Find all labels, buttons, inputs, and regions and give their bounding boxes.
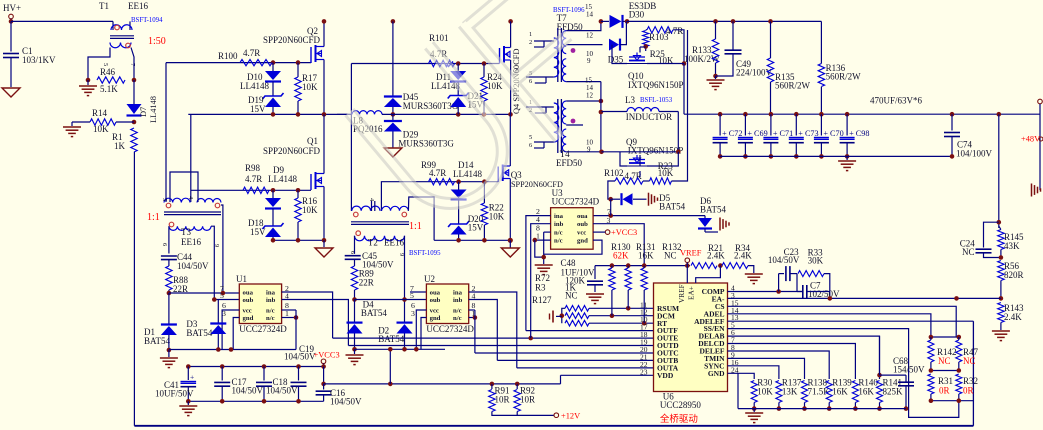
- wire gate bus Q4: [351, 63, 499, 65]
- chassis: [1031, 184, 1033, 197]
- svg-text:1: 1: [529, 31, 532, 38]
- svg-text:BSFT-1094: BSFT-1094: [131, 17, 163, 24]
- svg-text:104/50V: 104/50V: [177, 261, 209, 271]
- svg-text:LL4148: LL4148: [240, 81, 269, 91]
- svg-text:825K: 825K: [883, 387, 904, 397]
- ground: [87, 80, 89, 85]
- zener D19: [272, 82, 274, 97]
- wire U1 pin7: [167, 291, 172, 296]
- svg-text:+VCC3: +VCC3: [314, 351, 340, 360]
- svg-text:5: 5: [220, 291, 224, 300]
- svg-text:1:1: 1:1: [147, 212, 160, 223]
- svg-text:n/c: n/c: [266, 308, 275, 315]
- svg-text:R31: R31: [938, 376, 953, 386]
- svg-text:oub: oub: [430, 297, 441, 304]
- svg-text:oua: oua: [430, 290, 441, 297]
- ground: [187, 401, 189, 405]
- wire OUTF: [526, 330, 654, 332]
- svg-text:n/c: n/c: [554, 238, 563, 245]
- svg-text:10R: 10R: [495, 395, 510, 405]
- svg-text:INDUCTOR: INDUCTOR: [626, 112, 672, 122]
- wire: [566, 44, 602, 46]
- svg-text:0R: 0R: [939, 386, 950, 396]
- wire bottom return: [134, 425, 973, 427]
- svg-text:+12V: +12V: [561, 412, 580, 421]
- svg-text:BAT54: BAT54: [378, 334, 405, 344]
- ground: [168, 350, 170, 357]
- wire T4 pins left: [526, 106, 554, 108]
- diode D7: [133, 80, 135, 104]
- svg-text:EE16: EE16: [384, 238, 404, 248]
- svg-text:R3: R3: [535, 283, 546, 293]
- svg-text:5: 5: [161, 198, 168, 201]
- wire OUTB: [497, 359, 653, 361]
- capacitor C18: [263, 367, 265, 381]
- svg-text:16K: 16K: [858, 387, 874, 397]
- svg-text:inb: inb: [453, 297, 463, 304]
- svg-text:5: 5: [102, 63, 109, 66]
- wire COMP: [728, 291, 803, 293]
- ground: [72, 121, 90, 123]
- svg-text:R46: R46: [100, 67, 116, 77]
- wire: [683, 64, 685, 115]
- svg-text:IXTQ96N150P: IXTQ96N150P: [628, 80, 684, 90]
- svg-text:R127: R127: [532, 295, 552, 305]
- wire CS: [728, 306, 957, 337]
- zener D21: [457, 82, 459, 96]
- svg-text:10K: 10K: [658, 168, 674, 178]
- wire ADEL: [728, 314, 931, 337]
- svg-text:D30: D30: [629, 10, 645, 20]
- svg-text:ina: ina: [266, 290, 276, 297]
- wire: [88, 48, 110, 79]
- wire: [931, 370, 959, 372]
- svg-text:6: 6: [529, 142, 532, 149]
- wire: [620, 152, 627, 166]
- resistor R139: [728, 351, 830, 379]
- svg-text:oua: oua: [577, 213, 588, 220]
- svg-text:全桥驱动: 全桥驱动: [660, 413, 698, 425]
- wire gate Q3: [381, 182, 498, 211]
- svg-text:VREF: VREF: [677, 284, 686, 303]
- ic U6 UCC28950: [654, 283, 728, 392]
- svg-text:2: 2: [529, 39, 532, 46]
- svg-text:10K: 10K: [302, 82, 318, 92]
- svg-text:9: 9: [587, 146, 591, 154]
- wire: [612, 45, 627, 64]
- svg-text:SPP20N60CFD: SPP20N60CFD: [263, 146, 321, 156]
- wire source bus Q3: [434, 239, 510, 241]
- wire gnd bus: [738, 408, 906, 410]
- svg-text:102/50V: 102/50V: [808, 289, 840, 299]
- svg-text:224/100V: 224/100V: [736, 68, 773, 78]
- svg-text:L3: L3: [625, 95, 635, 105]
- svg-text:U1: U1: [236, 274, 247, 284]
- wire: [1000, 113, 1040, 115]
- wire: [566, 81, 601, 83]
- capacitor C16: [321, 364, 326, 369]
- capacitor C69: [743, 112, 748, 117]
- svg-text:inb: inb: [266, 297, 276, 304]
- svg-text:oub: oub: [577, 221, 588, 228]
- wire vcc3 bus: [188, 366, 323, 368]
- capacitor C71: [769, 112, 774, 117]
- wire: [170, 172, 198, 202]
- svg-text:+ C73: + C73: [798, 129, 818, 138]
- zener D18: [272, 209, 274, 227]
- ground: [556, 315, 562, 317]
- svg-text:EFD50: EFD50: [556, 158, 583, 168]
- svg-text:104/50V: 104/50V: [330, 397, 362, 407]
- svg-text:NC: NC: [962, 247, 975, 257]
- svg-text:NC: NC: [963, 356, 976, 366]
- svg-text:UCC27324D: UCC27324D: [552, 197, 600, 207]
- ground: [748, 266, 754, 273]
- wire: [647, 152, 678, 166]
- svg-text:EE16: EE16: [128, 1, 148, 11]
- svg-text:gnd: gnd: [430, 315, 441, 322]
- capacitor C98: [845, 112, 850, 117]
- svg-text:D7: D7: [139, 107, 148, 117]
- zener D20: [458, 200, 460, 225]
- wire T7 pins left: [534, 40, 554, 42]
- svg-text:30K: 30K: [808, 256, 824, 266]
- svg-text:103/1KV: 103/1KV: [22, 55, 56, 65]
- svg-text:U2: U2: [424, 274, 435, 284]
- svg-text:10K: 10K: [487, 81, 503, 91]
- wire EA-: [728, 297, 1001, 299]
- wire: [133, 152, 135, 426]
- svg-text:SPP20N60CFD: SPP20N60CFD: [263, 35, 321, 45]
- svg-text:154/50V: 154/50V: [893, 365, 925, 375]
- svg-text:GND: GND: [708, 369, 725, 378]
- wire output bus+: [684, 113, 999, 115]
- resistor R30: [728, 373, 755, 379]
- svg-text:+ C69: + C69: [747, 129, 767, 138]
- svg-text:BAT54: BAT54: [700, 205, 727, 215]
- wire: [639, 171, 641, 177]
- wire gate Q1: [191, 189, 311, 191]
- wire gate bus Q2: [166, 62, 311, 64]
- svg-text:1:1: 1:1: [409, 221, 422, 232]
- svg-text:3: 3: [222, 309, 226, 318]
- decor watermark: [349, 0, 630, 231]
- svg-text:EA+: EA+: [687, 286, 696, 300]
- svg-text:1:50: 1:50: [148, 36, 166, 47]
- svg-text:vcc: vcc: [577, 230, 586, 237]
- svg-text:ina: ina: [554, 213, 564, 220]
- wire phase bus mid: [382, 113, 511, 115]
- wire gnd row U1: [169, 349, 296, 351]
- svg-text:13K: 13K: [782, 387, 798, 397]
- wire: [593, 215, 705, 217]
- ground: [753, 409, 755, 412]
- svg-text:UCC28950: UCC28950: [660, 400, 702, 410]
- svg-text:10R: 10R: [520, 395, 535, 405]
- svg-text:oub: oub: [243, 297, 254, 304]
- svg-text:R72: R72: [535, 273, 550, 283]
- ground: [354, 349, 356, 354]
- svg-text:LL4148: LL4148: [268, 174, 297, 184]
- svg-text:470UF/63V*6: 470UF/63V*6: [870, 96, 923, 106]
- capacitor C74: [950, 112, 955, 117]
- resistor R137: [728, 366, 779, 379]
- wire: [165, 63, 167, 202]
- svg-text:6: 6: [529, 78, 532, 85]
- svg-text:560R/2W: 560R/2W: [826, 72, 862, 82]
- wire: [10, 19, 12, 22]
- wire: [931, 336, 959, 338]
- svg-text:4.7R: 4.7R: [429, 168, 446, 178]
- svg-text:HV+: HV+: [3, 3, 21, 13]
- svg-text:NC: NC: [938, 356, 951, 366]
- svg-text:n/c: n/c: [453, 308, 462, 315]
- svg-text:BAT54: BAT54: [659, 202, 686, 212]
- capacitor C70: [819, 112, 824, 117]
- svg-text:R32: R32: [963, 376, 978, 386]
- wire U3 gnd: [544, 240, 602, 254]
- svg-text:62K: 62K: [613, 251, 629, 261]
- transformer T2: [352, 206, 380, 211]
- svg-text:104/50V: 104/50V: [284, 352, 316, 362]
- svg-text:R98: R98: [245, 163, 261, 173]
- svg-text:gnd: gnd: [243, 315, 254, 322]
- svg-text:16K: 16K: [638, 251, 654, 261]
- capacitor C44: [161, 255, 177, 257]
- svg-text:R14: R14: [92, 108, 108, 118]
- svg-text:T2: T2: [368, 238, 378, 248]
- wire output bus-: [720, 155, 952, 157]
- svg-text:R102: R102: [604, 168, 624, 178]
- capacitor C73: [794, 112, 799, 117]
- svg-text:104/100V: 104/100V: [956, 149, 993, 159]
- ground: [392, 132, 394, 148]
- svg-text:+: +: [190, 373, 194, 382]
- wire OUTD: [348, 345, 653, 347]
- inductor L8: [337, 113, 352, 115]
- svg-text:10K: 10K: [757, 387, 773, 397]
- svg-text:vcc: vcc: [243, 308, 252, 315]
- capacitor C45: [345, 255, 361, 257]
- svg-text:R101: R101: [429, 33, 449, 43]
- svg-text:2.4K: 2.4K: [1004, 312, 1022, 322]
- svg-text:16K: 16K: [832, 387, 848, 397]
- wire SS/EN: [728, 329, 959, 418]
- svg-text:104/50V: 104/50V: [768, 255, 800, 265]
- svg-text:LL4148: LL4148: [149, 96, 158, 123]
- wire: [350, 64, 352, 212]
- wire U2 oua: [410, 291, 426, 293]
- svg-text:Q1: Q1: [307, 136, 318, 146]
- svg-text:15V: 15V: [250, 227, 266, 237]
- wire vref bus: [595, 265, 690, 267]
- wire: [408, 197, 434, 240]
- wire vcc3 gnd bus: [188, 400, 323, 402]
- svg-text:10K: 10K: [302, 205, 318, 215]
- svg-text:2.4K: 2.4K: [734, 251, 752, 261]
- svg-text:+VCC3: +VCC3: [611, 228, 637, 237]
- svg-text:IXTQ96N150P: IXTQ96N150P: [628, 146, 684, 156]
- svg-text:6: 6: [161, 243, 168, 246]
- ground: [323, 240, 325, 247]
- wire VDD: [561, 374, 654, 376]
- svg-text:4.7R: 4.7R: [245, 174, 262, 184]
- diode D10: [272, 63, 274, 71]
- svg-text:gnd: gnd: [577, 238, 588, 245]
- svg-text:3: 3: [411, 309, 415, 318]
- svg-text:n/c: n/c: [554, 230, 563, 237]
- svg-text:VREF: VREF: [680, 249, 702, 258]
- svg-text:NC: NC: [565, 291, 578, 301]
- wire: [211, 226, 214, 299]
- svg-text:vcc: vcc: [430, 308, 439, 315]
- wire: [931, 400, 974, 402]
- svg-text:BAT54: BAT54: [144, 336, 171, 346]
- svg-text:0R: 0R: [963, 386, 974, 396]
- wire: [389, 349, 391, 384]
- svg-text:14: 14: [586, 11, 594, 19]
- svg-text:+ C70: + C70: [823, 129, 843, 138]
- svg-text:ina: ina: [453, 290, 463, 297]
- ground: [1000, 323, 1002, 331]
- svg-text:LL4148: LL4148: [453, 169, 482, 179]
- wire: [404, 236, 406, 323]
- svg-text:43K: 43K: [1004, 241, 1020, 251]
- svg-text:5: 5: [529, 134, 532, 141]
- resistor R141: [728, 336, 880, 379]
- svg-text:n/c: n/c: [453, 315, 462, 322]
- wire vdd bus: [324, 383, 561, 385]
- svg-text:MURS360T3G: MURS360T3G: [403, 101, 459, 111]
- svg-text:BAT54: BAT54: [361, 308, 388, 318]
- port U3 vcc +VCC3: [605, 230, 610, 235]
- svg-text:10K: 10K: [489, 212, 505, 222]
- wire OUTA: [517, 367, 654, 369]
- svg-text:VDD: VDD: [657, 371, 674, 380]
- svg-text:MURS360T3G: MURS360T3G: [398, 139, 454, 149]
- ground: [846, 156, 848, 160]
- ground: [535, 264, 553, 266]
- svg-text:15V: 15V: [468, 223, 484, 233]
- capacitor C72: [718, 112, 723, 117]
- svg-text:9: 9: [587, 57, 591, 65]
- svg-text:22R: 22R: [359, 278, 374, 288]
- wire: [354, 236, 356, 254]
- wire source bus Q1: [273, 239, 324, 241]
- wire OUTC: [475, 352, 654, 354]
- svg-text:7: 7: [410, 284, 414, 293]
- capacitor C17: [221, 367, 223, 381]
- svg-text:BSFT-1095: BSFT-1095: [409, 250, 441, 257]
- svg-text:4.7R: 4.7R: [243, 48, 260, 58]
- wire: [673, 30, 684, 64]
- svg-text:+ C72: + C72: [722, 129, 742, 138]
- svg-text:15V: 15V: [250, 104, 266, 114]
- check mark: [447, 62, 454, 67]
- svg-text:UCC27324D: UCC27324D: [239, 324, 287, 334]
- wire gnd row U2: [355, 348, 446, 350]
- svg-text:5.1K: 5.1K: [100, 84, 118, 94]
- capacitor C19: [298, 367, 300, 381]
- svg-text:12: 12: [586, 32, 594, 40]
- wire: [589, 307, 654, 309]
- ground: [586, 293, 604, 295]
- wire U1 pin5: [214, 299, 239, 301]
- svg-text:inb: inb: [554, 221, 564, 228]
- svg-text:2.4K: 2.4K: [707, 251, 725, 261]
- wire: [371, 201, 373, 211]
- ground: [715, 76, 717, 79]
- wire T4 pins right: [566, 100, 601, 102]
- svg-text:NC: NC: [664, 251, 677, 261]
- ground: [2, 88, 20, 97]
- resistor R140: [728, 344, 856, 380]
- svg-text:C48: C48: [561, 258, 577, 268]
- wire top bus left: [11, 20, 113, 22]
- svg-text:T1: T1: [99, 1, 109, 11]
- ground: [509, 240, 511, 247]
- wire: [190, 114, 192, 202]
- svg-text:T3: T3: [181, 227, 191, 237]
- transformer T4: [557, 99, 559, 153]
- capacitor C41: [187, 367, 189, 381]
- svg-text:1: 1: [285, 309, 289, 318]
- svg-text:+48V: +48V: [1021, 135, 1040, 144]
- svg-text:Q3: Q3: [511, 170, 522, 180]
- wire EA+: [696, 266, 721, 283]
- wire ADELEF: [728, 320, 974, 322]
- svg-text:10UF/50V: 10UF/50V: [155, 389, 194, 399]
- wire U2 oub: [352, 297, 357, 302]
- wire top bus right: [627, 20, 821, 22]
- svg-text:n/c: n/c: [266, 315, 275, 322]
- wire: [608, 181, 615, 199]
- port +12V: [492, 412, 554, 416]
- svg-text:560R/2W: 560R/2W: [775, 81, 811, 91]
- wire T7 pins right: [566, 21, 601, 30]
- svg-text:R100: R100: [218, 51, 238, 61]
- svg-text:BSFL-1053: BSFL-1053: [640, 97, 673, 104]
- svg-text:1K: 1K: [114, 141, 126, 151]
- svg-text:EE16: EE16: [181, 237, 201, 247]
- svg-text:12: 12: [586, 92, 594, 100]
- svg-text:+ C71: + C71: [773, 129, 793, 138]
- svg-text:23: 23: [640, 367, 648, 376]
- wire center tap: [600, 82, 602, 152]
- wire OUTE: [333, 337, 654, 339]
- port +48V: [1038, 99, 1043, 104]
- wire phase bus: [188, 113, 352, 115]
- svg-text:820R: 820R: [1004, 270, 1024, 280]
- svg-text:+ C98: + C98: [849, 129, 869, 138]
- wire: [221, 205, 223, 293]
- wire: [997, 112, 1002, 117]
- resistor R138: [728, 358, 805, 379]
- svg-text:UCC27324D: UCC27324D: [426, 324, 474, 334]
- capacitor C1: [10, 21, 12, 51]
- wire: [131, 48, 134, 79]
- svg-text:BAT54: BAT54: [186, 328, 213, 338]
- svg-text:oua: oua: [243, 290, 254, 297]
- wire: [168, 226, 170, 253]
